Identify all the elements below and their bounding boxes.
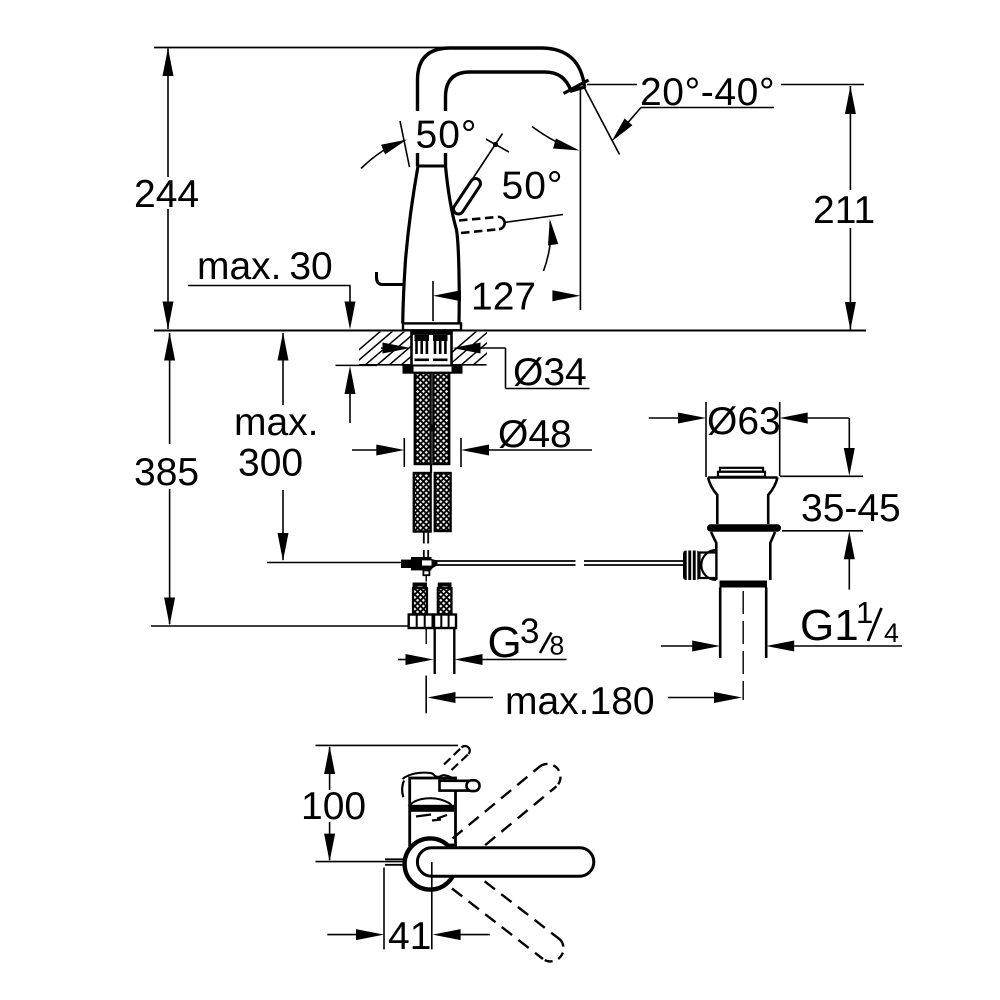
supply hose connectors	[409, 583, 456, 629]
svg-text:100: 100	[301, 785, 366, 828]
svg-text:max.: max.	[234, 401, 319, 444]
dimension max 300	[282, 333, 284, 405]
svg-text:1: 1	[856, 595, 873, 630]
O63 extension lines	[705, 402, 707, 477]
pop-up rod handle (side view, left of body)	[377, 272, 405, 285]
counter bottom extension line	[336, 364, 378, 366]
dimension 100	[329, 747, 331, 790]
spout angle reference thin line	[584, 87, 620, 155]
top view body cap	[410, 778, 456, 845]
countertop line	[154, 330, 866, 332]
svg-text:max. 30: max. 30	[197, 245, 333, 288]
body top line	[418, 165, 446, 168]
faucet body (side view)	[403, 166, 460, 323]
svg-text:max.180: max.180	[505, 680, 655, 723]
dimension 211	[849, 86, 851, 190]
dashed lever down position (top view)	[452, 869, 564, 962]
lever handle closed (solid, tilted up-right)	[459, 184, 476, 210]
thin line from open lever end	[504, 215, 563, 223]
lever handle open (dashed, nearly horizontal)	[459, 217, 498, 221]
drain plug knob	[720, 468, 763, 472]
svg-text:41: 41	[388, 915, 431, 958]
max.30 up arrow to counter bottom	[349, 394, 351, 423]
dimension 41	[383, 868, 385, 950]
dimension 244	[167, 49, 169, 178]
dimension O34 arrows	[381, 347, 385, 349]
100 bottom extension line	[316, 861, 405, 863]
svg-text:3: 3	[520, 612, 539, 651]
drain flange	[708, 478, 778, 525]
handle pin (top view)	[440, 781, 469, 791]
svg-text:50°: 50°	[416, 114, 478, 157]
max.30 down arrow to counter top	[349, 286, 351, 306]
svg-text:35-45: 35-45	[801, 487, 901, 530]
dimension 35-45	[780, 475, 863, 477]
knob connector piece	[700, 553, 717, 579]
svg-text:300: 300	[238, 442, 303, 485]
tail pipe center line	[742, 591, 744, 700]
top reference line (spout top level)	[154, 47, 470, 49]
pop-up rod below hoses	[423, 531, 425, 544]
dimension O48 extension lines	[403, 438, 405, 467]
small clip between hoses	[430, 425, 436, 432]
horizontal pop-up rod to drain	[436, 560, 576, 562]
svg-text:127: 127	[471, 276, 536, 319]
pop-up rod piece in hose gap	[430, 464, 432, 473]
svg-text:4: 4	[884, 618, 899, 648]
svg-text:211: 211	[813, 189, 875, 232]
mounting nut under counter	[404, 366, 462, 373]
max300 bottom extension line	[267, 562, 401, 564]
body circle (top view)	[405, 838, 456, 889]
drain body	[711, 532, 775, 580]
supply tail pipe (right)	[434, 628, 436, 674]
spout swivel arc arrow	[532, 127, 574, 150]
svg-text:G1: G1	[800, 601, 859, 650]
211 top extension line (with gap for 20-40 text)	[587, 84, 637, 86]
arc arrow for lever 50 deg	[361, 143, 400, 169]
left connector center line	[425, 628, 427, 644]
svg-text:385: 385	[134, 451, 199, 494]
top-view swung spout (dashed, up-right)	[444, 746, 470, 770]
100 top extension line	[316, 744, 459, 746]
bottom collar	[720, 581, 768, 588]
spout outlet face	[564, 80, 589, 94]
white mask behind first 50 deg text	[412, 111, 486, 153]
dimension 127	[432, 281, 434, 321]
pop-up rod coupling	[401, 560, 411, 568]
black band across body	[410, 805, 454, 812]
20-40 leader with arrow	[618, 108, 641, 135]
O34 leader and underline	[505, 348, 507, 389]
shank tube in counter hole	[410, 331, 413, 366]
svg-text:Ø48: Ø48	[498, 413, 572, 456]
solid lever (top view)	[417, 848, 593, 876]
freehand squiggle at cap top	[403, 773, 455, 780]
hex nuts	[409, 615, 433, 629]
braided hoses lower segment	[414, 473, 431, 532]
gasket band under plate	[411, 331, 452, 335]
svg-text:8: 8	[550, 631, 565, 661]
20-40 underline	[641, 107, 774, 109]
side knurled knob	[683, 551, 700, 581]
svg-text:244: 244	[134, 173, 199, 216]
dimension 385	[169, 333, 171, 444]
counter section bottom line	[359, 364, 411, 366]
arc arrow for second 50 deg	[544, 222, 551, 271]
lever fully-up reference line	[400, 121, 410, 167]
rubber seal ring	[707, 524, 781, 531]
small arc left of cap	[402, 781, 404, 798]
svg-text:Ø34: Ø34	[513, 351, 587, 394]
dashed lever up position (top view)	[453, 764, 561, 859]
dimension G3/8	[398, 659, 406, 661]
pop-up rod (top view, left of circle)	[385, 858, 404, 860]
pivot X marker and line to lever top	[483, 138, 509, 153]
svg-text:Ø63: Ø63	[707, 400, 781, 443]
svg-text:50°: 50°	[502, 165, 564, 208]
braided hoses upper segment	[415, 373, 431, 464]
base plate	[403, 323, 461, 330]
svg-text:G: G	[488, 618, 522, 667]
freehand marks mid body	[409, 798, 453, 808]
spout (side view)	[418, 48, 585, 166]
dimension max.180	[425, 676, 427, 714]
max.30 underline	[188, 285, 351, 287]
385 bottom reference line	[151, 625, 409, 627]
threaded studs	[415, 335, 448, 361]
tail pipe	[719, 588, 722, 659]
dimension O48 arrows	[352, 449, 378, 451]
dimension G1 1/4	[661, 645, 693, 647]
O63 arrows	[649, 417, 679, 419]
